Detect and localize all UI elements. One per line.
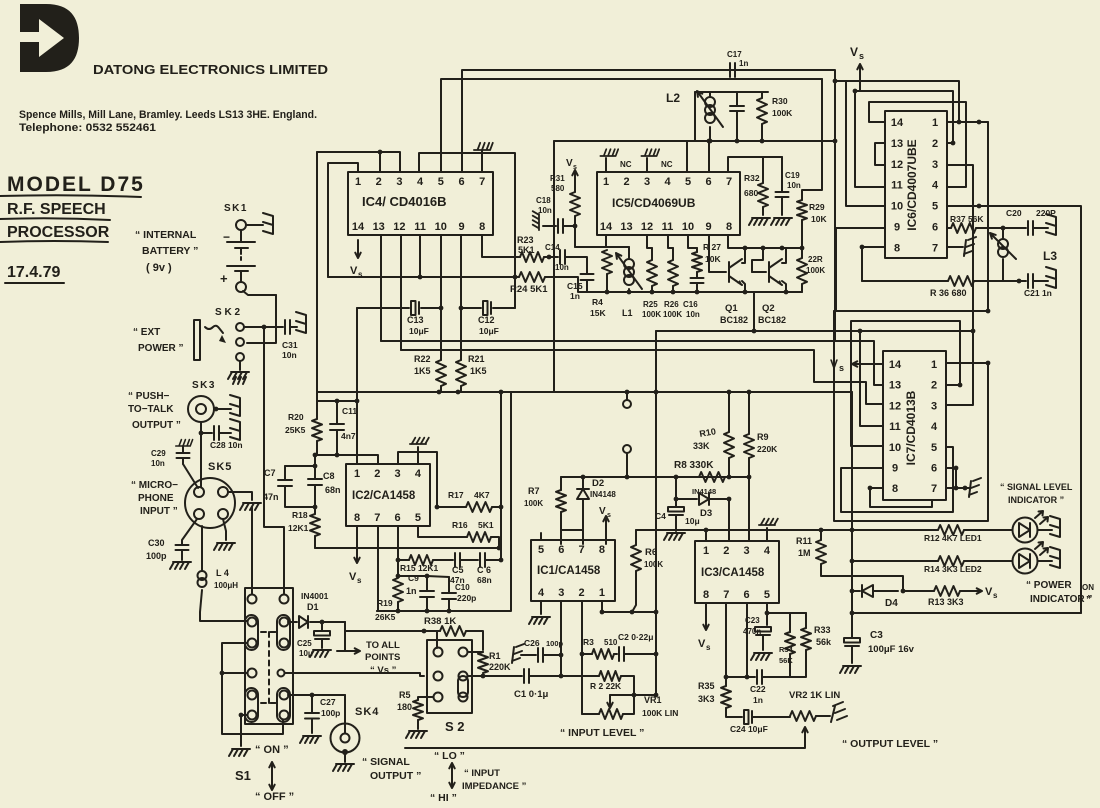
resistor R37	[947, 227, 951, 229]
svg-text:s: s	[607, 512, 611, 519]
svg-text:100K: 100K	[644, 560, 663, 569]
svg-text:C19: C19	[785, 171, 800, 180]
svg-text:C2 0·22μ: C2 0·22μ	[618, 632, 653, 642]
wire tank top	[695, 91, 768, 93]
ground above IC2 pin4	[417, 447, 419, 464]
svg-text:“ MICRO−: “ MICRO−	[131, 480, 178, 491]
S2 contact 3L	[434, 693, 443, 702]
svg-text:R1: R1	[489, 651, 501, 661]
Vs arrow below IC4 pin14	[355, 240, 360, 258]
svg-text:“ HI ”: “ HI ”	[430, 792, 457, 804]
svg-text:IC5/CD4069UB: IC5/CD4069UB	[612, 196, 696, 210]
svg-text:C28 10n: C28 10n	[210, 440, 243, 450]
svg-text:10μF: 10μF	[409, 326, 429, 336]
svg-text:s: s	[706, 643, 711, 652]
S1 link 5L-6L	[245, 688, 258, 722]
wire L3 bottom	[1003, 280, 1019, 282]
svg-text:Q1: Q1	[725, 303, 738, 314]
svg-text:9: 9	[892, 463, 898, 475]
Vs arrow IC6	[857, 64, 862, 91]
svg-text:C16: C16	[683, 300, 698, 309]
svg-text:14: 14	[889, 359, 902, 371]
svg-text:“ INPUT: “ INPUT	[464, 768, 500, 779]
svg-text:5: 5	[932, 201, 938, 213]
svg-text:100p: 100p	[321, 708, 340, 718]
svg-text:Spence Mills, Mill Lane, Braml: Spence Mills, Mill Lane, Bramley. Leeds …	[19, 109, 317, 121]
svg-text:1n: 1n	[753, 695, 763, 705]
wire IC7 pin11 up	[860, 331, 883, 426]
capacitor C5	[455, 553, 460, 567]
svg-text:L1: L1	[622, 308, 633, 318]
svg-text:10n: 10n	[282, 350, 297, 360]
resistor R34	[789, 613, 791, 632]
svg-text:PHONE: PHONE	[138, 493, 174, 504]
svg-text:“ OFF ”: “ OFF ”	[255, 791, 294, 803]
svg-text:s: s	[859, 51, 864, 61]
svg-text:R26: R26	[664, 300, 679, 309]
svg-text:14: 14	[352, 221, 365, 233]
svg-text:1: 1	[355, 176, 361, 188]
wire SK3 to E	[214, 408, 231, 410]
svg-text:1n: 1n	[406, 586, 417, 596]
wire C13 left corner down	[356, 308, 358, 401]
svg-text:1: 1	[931, 359, 937, 371]
inductor L2	[709, 92, 711, 96]
ground below R32	[749, 218, 770, 225]
svg-text:C4: C4	[655, 511, 666, 521]
wire rail C y350	[401, 350, 883, 404]
wire IC1 pin5 up	[540, 533, 542, 540]
svg-text:POWER ”: POWER ”	[138, 343, 184, 354]
S2 link 2R-3R	[458, 676, 468, 697]
resistor R7	[560, 477, 562, 490]
svg-text:3: 3	[396, 176, 402, 188]
svg-text:C 6: C 6	[477, 565, 491, 575]
impedance arrows	[449, 763, 454, 783]
svg-text:100K: 100K	[772, 108, 793, 118]
svg-text:C30: C30	[148, 538, 165, 548]
wire IC2 pin5 to R16	[418, 526, 467, 537]
capacitor C14	[560, 250, 565, 264]
resistor R1	[468, 651, 483, 653]
wire S2 to C1	[468, 675, 522, 677]
svg-text:10n: 10n	[538, 206, 552, 215]
svg-text:C9: C9	[408, 573, 419, 583]
SK5 pin 4	[218, 509, 228, 519]
wire D2 rail y477	[561, 476, 749, 478]
svg-text:R11: R11	[796, 536, 812, 546]
wire IC6 pin3 down right	[947, 165, 973, 331]
svg-text:2: 2	[723, 545, 729, 557]
svg-text:R5: R5	[399, 690, 411, 700]
svg-text:4: 4	[931, 421, 938, 433]
connector SK4	[331, 724, 360, 753]
capacitor C29 with ground	[176, 440, 193, 446]
svg-text:C22: C22	[750, 684, 766, 694]
svg-text:TO−TALK: TO−TALK	[128, 404, 174, 415]
svg-text:3: 3	[744, 545, 750, 557]
wire bus x501	[500, 392, 502, 560]
wire pin11 to rail 277	[419, 235, 421, 277]
wire mic line to S1	[251, 507, 253, 594]
svg-text:6: 6	[458, 176, 464, 188]
wire C7 top bracket	[285, 465, 315, 467]
svg-text:9: 9	[705, 221, 711, 233]
op-amp IC6 CD4007UBE	[885, 111, 947, 258]
svg-text:SK1: SK1	[224, 203, 248, 214]
svg-text:“ EXT: “ EXT	[133, 327, 160, 338]
svg-text:R18: R18	[292, 510, 308, 520]
svg-text:2: 2	[932, 138, 938, 150]
wire rail y392	[317, 391, 512, 393]
svg-text:6: 6	[744, 589, 750, 601]
svg-text:11: 11	[891, 180, 903, 192]
svg-text:4: 4	[415, 468, 422, 480]
svg-text:R32: R32	[744, 173, 760, 183]
svg-text:220P: 220P	[1036, 208, 1056, 218]
capacitor C19	[781, 157, 783, 191]
svg-text:R29: R29	[809, 202, 825, 212]
svg-text:“ SIGNAL: “ SIGNAL	[362, 756, 410, 768]
connector E2	[296, 312, 306, 333]
ground below C4	[664, 533, 685, 540]
wire output level line	[405, 743, 805, 748]
svg-text:68n: 68n	[477, 575, 492, 585]
wire L4 to S1	[200, 590, 247, 621]
wire SK5 center to L4	[201, 526, 203, 570]
wire S1 left bracket	[222, 643, 283, 734]
svg-text:BATTERY ”: BATTERY ”	[142, 245, 198, 257]
svg-text:C5: C5	[452, 565, 464, 575]
connector E4	[230, 419, 240, 440]
svg-text:L3: L3	[1043, 249, 1057, 263]
svg-text:“ SIGNAL LEVEL: “ SIGNAL LEVEL	[1000, 482, 1073, 492]
svg-text:R22: R22	[414, 354, 431, 364]
wire IC6 left pin10	[846, 81, 885, 206]
svg-text:C24 10μF: C24 10μF	[730, 724, 768, 734]
capacitor C2	[619, 647, 624, 661]
resistor R29	[802, 79, 822, 200]
svg-text:”: ”	[1086, 595, 1091, 606]
wire IC6 nest top3 pin14 to pin4	[869, 102, 966, 187]
wire IC5 section divider	[553, 141, 555, 392]
SK2 contact b	[236, 338, 244, 346]
svg-text:C31: C31	[282, 340, 298, 350]
wire IC7 pin6 down	[946, 468, 956, 488]
S2 contact 1R	[459, 648, 468, 657]
svg-text:R34: R34	[779, 645, 794, 654]
wire IC6 left pin9	[836, 228, 885, 311]
Vs arrow R13	[960, 588, 982, 593]
wire IC7 pin10 nest	[851, 321, 960, 446]
svg-text:10: 10	[891, 201, 903, 213]
svg-text:7: 7	[932, 242, 938, 254]
svg-text:PROCESSOR: PROCESSOR	[7, 224, 110, 241]
svg-text:V: V	[566, 158, 573, 169]
svg-text:C17: C17	[727, 50, 742, 59]
wire Q2 base	[752, 271, 766, 273]
svg-text:R 27: R 27	[703, 242, 721, 252]
svg-text:IC6/CD4007UBE: IC6/CD4007UBE	[905, 139, 919, 230]
connector E1	[263, 213, 273, 234]
arrow TO ALL POINTS Vs	[337, 648, 360, 653]
svg-text:V: V	[350, 265, 358, 277]
svg-text:“ INTERNAL: “ INTERNAL	[135, 229, 197, 241]
svg-text:14: 14	[891, 117, 904, 129]
svg-text:R3: R3	[583, 637, 594, 647]
svg-text:C23: C23	[745, 616, 760, 625]
svg-text:3: 3	[931, 400, 937, 412]
wire S1 to D1	[288, 621, 297, 623]
svg-text:DATONG ELECTRONICS LIMITED: DATONG ELECTRONICS LIMITED	[93, 63, 328, 77]
resistor R32	[762, 157, 764, 183]
S1 contact 2L	[248, 618, 257, 627]
node circle upper	[626, 392, 628, 400]
capacitor C20	[1028, 221, 1033, 235]
wire S1 row5 to C27	[288, 694, 345, 696]
svg-text:7: 7	[374, 512, 380, 524]
wire C9 C10 bracket	[398, 576, 449, 577]
wire R20 C11 bottoms to IC2 pin2	[315, 455, 378, 464]
svg-text:4K7: 4K7	[474, 490, 490, 500]
svg-text:C8: C8	[323, 471, 335, 481]
resistor R12	[938, 525, 964, 535]
ground above IC5 pin3	[646, 158, 648, 172]
svg-text:SK3: SK3	[192, 380, 216, 391]
S1 contact 4R	[278, 670, 285, 677]
wire IC6 nest top1	[835, 81, 959, 122]
svg-text:C26: C26	[524, 638, 540, 648]
svg-text:12: 12	[889, 400, 901, 412]
svg-text:8: 8	[354, 512, 360, 524]
svg-text:IN4148: IN4148	[590, 490, 616, 499]
svg-text:6: 6	[705, 176, 711, 188]
svg-text:12: 12	[891, 159, 903, 171]
capacitor C23	[766, 613, 768, 625]
S1 contact 5L	[248, 691, 257, 700]
svg-text:25K5: 25K5	[285, 425, 306, 435]
wire IC7 pin7 ground	[946, 487, 970, 489]
capacitor C22	[757, 670, 762, 684]
wire R19 branch	[397, 560, 399, 576]
svg-text:C3: C3	[870, 630, 883, 641]
svg-text:D2: D2	[592, 478, 604, 489]
svg-text:C10: C10	[455, 583, 470, 592]
svg-text:L2: L2	[666, 91, 680, 105]
resistor R25	[651, 248, 653, 260]
svg-text:100K: 100K	[806, 266, 825, 275]
svg-text:1: 1	[354, 468, 360, 480]
svg-text:C29: C29	[151, 449, 166, 458]
svg-text:4: 4	[764, 545, 771, 557]
svg-text:C14: C14	[545, 243, 560, 252]
svg-text:R12 4K7 LED1: R12 4K7 LED1	[924, 533, 982, 543]
svg-text:11: 11	[414, 221, 426, 233]
svg-text:510: 510	[604, 638, 618, 647]
S1 contact 5R	[280, 691, 289, 700]
svg-text:“ ON ”: “ ON ”	[255, 744, 289, 756]
svg-text:R17: R17	[448, 490, 464, 500]
svg-text:13: 13	[889, 380, 901, 392]
wire IC5 pin7 bracket	[728, 157, 782, 172]
wire C12 right up	[514, 277, 516, 308]
inductor L3	[1002, 228, 1004, 238]
wire pin10 down	[440, 235, 442, 308]
wire D3 to IC3 pin2	[728, 499, 730, 541]
S1 contact 2R	[280, 618, 289, 627]
svg-text:6: 6	[395, 512, 401, 524]
svg-text:1M: 1M	[798, 548, 811, 558]
svg-text:TO ALL: TO ALL	[366, 640, 400, 651]
wire tank bottom rail	[694, 92, 696, 141]
svg-text:14: 14	[600, 221, 613, 233]
svg-text:IC1/CA1458: IC1/CA1458	[537, 565, 601, 577]
svg-text:7: 7	[931, 483, 937, 495]
wire IC7 outer wrap	[834, 311, 988, 521]
svg-text:68n: 68n	[325, 485, 341, 495]
svg-text:47n: 47n	[263, 492, 279, 502]
svg-text:IC2/CA1458: IC2/CA1458	[352, 490, 416, 502]
ground below C3	[840, 666, 861, 673]
ground below SK4	[333, 764, 354, 771]
svg-text:C13: C13	[407, 315, 424, 325]
svg-text:100K: 100K	[663, 310, 682, 319]
svg-text:10n: 10n	[787, 181, 801, 190]
resistor R23	[520, 252, 544, 262]
battery minus terminal	[236, 282, 246, 292]
SK2 contact a	[236, 323, 244, 331]
resistor R14	[938, 556, 964, 566]
ground below C25	[310, 650, 331, 657]
svg-text:3K3: 3K3	[698, 694, 715, 704]
svg-text:IN4001: IN4001	[301, 591, 329, 601]
svg-text:7: 7	[723, 589, 729, 601]
capacitor C30	[176, 545, 189, 550]
svg-text:6: 6	[558, 544, 564, 556]
wire R34 bracket	[767, 612, 790, 614]
svg-text:10K: 10K	[811, 214, 827, 224]
ground mark	[233, 377, 246, 384]
resistor R33	[805, 613, 807, 628]
capacitor C25	[321, 622, 323, 630]
wire	[246, 224, 263, 226]
ground above IC5 pin1	[605, 158, 607, 172]
potentiometer VR2	[790, 711, 816, 721]
svg-text:s: s	[573, 164, 577, 171]
svg-text:10n: 10n	[686, 310, 700, 319]
wire D1 node to R38 rail	[345, 622, 424, 631]
svg-text:C1 0·1μ: C1 0·1μ	[514, 689, 549, 700]
connector SK2 jack	[194, 320, 200, 360]
resistor R21	[460, 308, 462, 360]
connector SK5	[185, 478, 235, 528]
ground below SK2	[228, 372, 249, 379]
svg-text:26K5: 26K5	[375, 612, 396, 622]
svg-text:C25: C25	[297, 639, 312, 648]
svg-text:V: V	[850, 45, 858, 59]
capacitor C1	[524, 669, 529, 683]
svg-text:C20: C20	[1006, 208, 1022, 218]
diode D2	[582, 477, 584, 488]
capacitor C9	[426, 576, 428, 590]
wire R2 line	[561, 675, 599, 677]
resistor R3	[592, 649, 614, 659]
capacitor C17	[730, 63, 735, 77]
S2 contact 2L	[434, 672, 443, 681]
svg-text:s: s	[839, 363, 844, 373]
capacitor C15	[581, 274, 594, 280]
svg-text:IC7/CD4013B: IC7/CD4013B	[904, 390, 918, 465]
wire IC6 left pin11	[855, 91, 885, 187]
svg-text:OUTPUT ”: OUTPUT ”	[132, 420, 181, 431]
svg-text:Q2: Q2	[762, 303, 775, 314]
svg-text:R7: R7	[528, 486, 540, 496]
wire C27 to SK4	[344, 695, 346, 733]
wire IC2 pin6 down	[397, 526, 399, 560]
svg-text:5K1: 5K1	[478, 520, 494, 530]
S1 contact 1L	[248, 595, 257, 604]
svg-text:R37 56K: R37 56K	[950, 214, 984, 224]
wire IC6 pin1 to right	[947, 121, 988, 123]
capacitor C27	[311, 695, 313, 712]
wire IC6 pin2 stub	[947, 142, 953, 144]
svg-text:6: 6	[932, 222, 938, 234]
svg-text:“ LO ”: “ LO ”	[434, 750, 465, 762]
S1 contact 3L	[248, 639, 257, 648]
ground above IC3 pin4	[766, 528, 768, 541]
svg-text:“ INPUT LEVEL ”: “ INPUT LEVEL ”	[560, 727, 644, 739]
svg-text:BC182: BC182	[758, 315, 786, 325]
inductor L1	[628, 247, 630, 258]
svg-text:10μF: 10μF	[479, 326, 499, 336]
svg-text:5: 5	[438, 176, 444, 188]
S1 link 2L-3L	[245, 615, 258, 650]
svg-text:R20: R20	[288, 412, 304, 422]
connector E9	[1050, 547, 1060, 568]
wire pin12 down to rail C	[400, 235, 402, 350]
svg-text:1: 1	[703, 545, 709, 557]
svg-text:R38 1K: R38 1K	[424, 616, 456, 627]
svg-text:VR1: VR1	[644, 695, 662, 705]
svg-text:180: 180	[397, 702, 412, 712]
svg-text:R31: R31	[550, 174, 565, 183]
S1 contact 6R	[280, 711, 289, 720]
svg-text:220K: 220K	[757, 444, 778, 454]
svg-text:3: 3	[395, 468, 401, 480]
wire LED line y530	[636, 529, 926, 531]
S1 contact 6L	[248, 711, 257, 720]
resistor R15	[398, 559, 409, 561]
svg-text:INPUT ”: INPUT ”	[140, 506, 178, 517]
wire IC5 pin14 stub	[605, 235, 607, 247]
svg-text:12: 12	[641, 221, 653, 233]
svg-text:8: 8	[703, 589, 709, 601]
svg-text:12: 12	[393, 221, 405, 233]
resistor R17	[437, 506, 466, 508]
svg-text:1K5: 1K5	[414, 366, 431, 376]
svg-text:R.F. SPEECH: R.F. SPEECH	[7, 201, 106, 218]
resistor R28	[801, 248, 803, 258]
svg-text:7: 7	[579, 544, 585, 556]
svg-text:C11: C11	[342, 406, 357, 416]
Vs arrow IC1 pin8	[603, 516, 608, 536]
wire pin1 bracket	[328, 163, 358, 277]
wire pin8 to R23	[482, 235, 520, 257]
svg-text:IC4/ CD4016B: IC4/ CD4016B	[362, 194, 447, 209]
svg-text:10K: 10K	[705, 254, 721, 264]
wire R20 bracket	[317, 392, 357, 401]
resistor R22	[440, 308, 442, 360]
